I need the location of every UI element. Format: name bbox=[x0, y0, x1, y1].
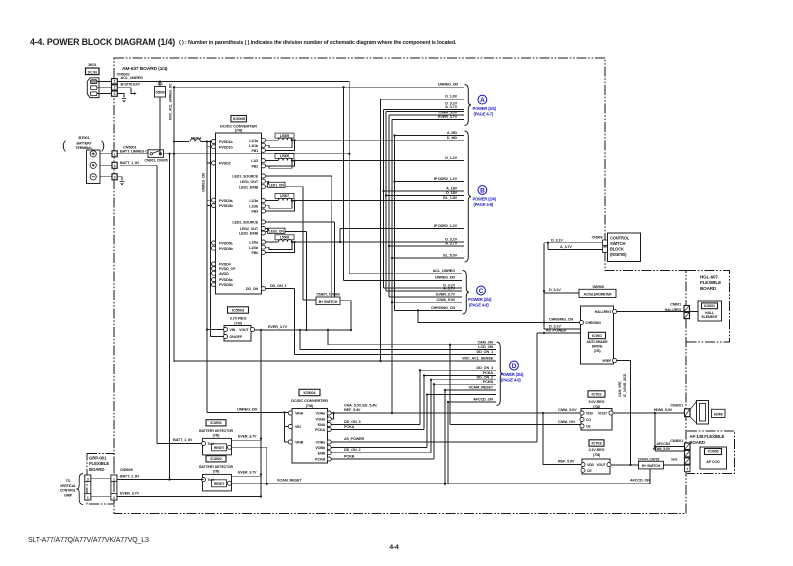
svg-text:EL_1.8V: EL_1.8V bbox=[443, 196, 457, 200]
wire group B A_18V bbox=[384, 190, 465, 192]
vertical bus line v5 bbox=[391, 120, 393, 413]
vertical bus line v6 bbox=[394, 136, 396, 311]
svg-text:BT001: BT001 bbox=[79, 135, 91, 140]
wire group D PCKB bbox=[434, 383, 496, 385]
svg-text:PVDD2: PVDD2 bbox=[219, 162, 231, 166]
svg-text:VOHa: VOHa bbox=[316, 412, 327, 416]
svg-text:L1/1b: L1/1b bbox=[249, 144, 259, 148]
svg-text:IC3902: IC3902 bbox=[210, 457, 221, 461]
wire group A EVER_3.7V bbox=[392, 119, 464, 121]
diode block D5008 bbox=[155, 87, 166, 98]
svg-text:HALLREG: HALLREG bbox=[665, 308, 682, 312]
svg-text:D5008: D5008 bbox=[156, 90, 165, 94]
wire grip internal 1 bbox=[91, 478, 111, 480]
wire B+ switch in bbox=[303, 299, 316, 301]
svg-text:CN001, CN005: CN001, CN005 bbox=[144, 159, 167, 163]
svg-text:LED1_ON: LED1_ON bbox=[269, 183, 285, 187]
svg-text:BOARD: BOARD bbox=[89, 467, 104, 472]
wire group D AFCCD_ON bbox=[448, 401, 496, 403]
board outline AF-138 bbox=[687, 431, 735, 474]
svg-text:B+ SWITCH: B+ SWITCH bbox=[642, 464, 661, 468]
svg-text:A_3.7V: A_3.7V bbox=[560, 245, 572, 249]
wire BATT_1_IN bbox=[120, 164, 157, 166]
svg-text:A_MD: A_MD bbox=[447, 131, 458, 135]
IC IC5008 body bbox=[216, 133, 262, 294]
svg-text:GRP-001: GRP-001 bbox=[89, 456, 107, 461]
svg-text:AVDD: AVDD bbox=[219, 272, 229, 276]
svg-text:IP DDR2_1.2V: IP DDR2_1.2V bbox=[434, 177, 458, 181]
svg-text:D-4: D-4 bbox=[158, 82, 163, 86]
wire into D5008 bbox=[159, 82, 161, 87]
svg-text:CN909: CN909 bbox=[592, 236, 603, 240]
svg-text:BATTERY DETECTOR: BATTERY DETECTOR bbox=[199, 429, 233, 433]
vertical bus line v2 bbox=[383, 110, 385, 289]
svg-text:AFCCD_ON: AFCCD_ON bbox=[630, 478, 650, 482]
svg-text:PVDD3b: PVDD3b bbox=[219, 204, 234, 208]
wire group D DD_ON_3 bbox=[420, 369, 496, 371]
svg-text:HDMI_5.0V: HDMI_5.0V bbox=[654, 408, 673, 412]
svg-text:VOHb: VOHb bbox=[315, 418, 326, 422]
svg-text:PVDD1b: PVDD1b bbox=[219, 145, 234, 149]
svg-text:VOBa: VOBa bbox=[316, 441, 327, 445]
wire ENB DD_ON_2 bbox=[331, 452, 431, 454]
wire riser DD_ON_2 bbox=[430, 380, 432, 453]
svg-text:LED1_OUT: LED1_OUT bbox=[240, 180, 259, 184]
wire D_3.1V to IC901 bbox=[544, 328, 580, 330]
svg-text:VDD: VDD bbox=[587, 463, 595, 467]
svg-text:L1/3a: L1/3a bbox=[249, 199, 259, 203]
wire JK01 pin2 to CN5002-2 bbox=[97, 87, 112, 89]
wire group B IP DDR2_1.2V bbox=[340, 228, 464, 230]
svg-text:A: A bbox=[480, 97, 485, 104]
svg-text:LCD_ON: LCD_ON bbox=[478, 345, 493, 349]
wire to control switch pin1 bbox=[544, 242, 603, 244]
wire UNREG_DD to VINA bbox=[207, 411, 288, 413]
switch B+ SWITCH top bbox=[316, 297, 340, 305]
svg-text:IC901: IC901 bbox=[592, 333, 603, 338]
wire BT001- to CN5001-3 bbox=[100, 176, 112, 178]
svg-text:PVDD4: PVDD4 bbox=[219, 263, 232, 267]
svg-text:DD_ON_1: DD_ON_1 bbox=[477, 350, 494, 354]
wire LED2_OUT bbox=[265, 229, 268, 232]
svg-text:ACCELEROMETER: ACCELEROMETER bbox=[583, 293, 612, 297]
ground at CN5002 bbox=[122, 99, 127, 102]
svg-text:HDMI: HDMI bbox=[714, 412, 723, 416]
connector grip right bbox=[111, 475, 117, 500]
connector CN909 bbox=[603, 240, 608, 245]
svg-text:ENA: ENA bbox=[318, 423, 326, 427]
svg-text:L1/3b: L1/3b bbox=[249, 204, 259, 208]
connector CN5002 bbox=[112, 79, 118, 84]
svg-text:HALL: HALL bbox=[705, 311, 715, 315]
svg-text:ENB: ENB bbox=[318, 451, 326, 455]
junction B+ at ACL vertical bbox=[348, 153, 350, 155]
wire group B A_MD bbox=[395, 135, 465, 137]
connector CN801 bbox=[684, 306, 690, 312]
wire EVER_3.7V rail bbox=[254, 329, 351, 331]
svg-text:1: 1 bbox=[114, 152, 116, 156]
svg-text:CHRGING_CN: CHRGING_CN bbox=[431, 306, 455, 310]
svg-text:VIN: VIN bbox=[230, 328, 236, 332]
svg-text:(PAGE 4-8): (PAGE 4-8) bbox=[474, 202, 494, 207]
wire B+ switch to CN3001 Iset bbox=[664, 464, 685, 466]
svg-text:(7/8): (7/8) bbox=[593, 453, 601, 457]
wire EVER_3.7V grip bbox=[117, 496, 261, 498]
wire group C CHRGING_CN bbox=[395, 309, 463, 311]
board outline AM-637 bbox=[114, 58, 686, 514]
svg-text:UNREG_DD: UNREG_DD bbox=[202, 172, 206, 192]
wire JK01 pin1 to CN5002-1 bbox=[97, 81, 112, 83]
svg-text:POWER (2/4): POWER (2/4) bbox=[473, 106, 497, 111]
wire group A A_3.7V bbox=[386, 111, 464, 113]
svg-text:AF-138 FLEXIBLE: AF-138 FLEXIBLE bbox=[690, 434, 725, 439]
wire rail to IC5003 VIN and VINA bbox=[206, 206, 208, 413]
svg-text:DD_ON_2: DD_ON_2 bbox=[344, 448, 361, 452]
svg-text:CO: CO bbox=[586, 418, 591, 422]
svg-text:D_3.1V: D_3.1V bbox=[549, 288, 561, 292]
wire rail to IC5003 ONOFF bbox=[210, 285, 212, 337]
svg-text:A_3.7V: A_3.7V bbox=[445, 105, 457, 109]
svg-text:A_3.7V: A_3.7V bbox=[443, 287, 455, 291]
brace grip bbox=[76, 474, 83, 505]
svg-text:UNREG_DD: UNREG_DD bbox=[438, 82, 459, 86]
svg-text:(PAGE 4-7): (PAGE 4-7) bbox=[474, 111, 494, 116]
svg-text:FB6: FB6 bbox=[251, 251, 258, 255]
svg-text:IC_3.0V/B_I2CD: IC_3.0V/B_I2CD bbox=[623, 373, 627, 397]
IC IC5003 label bbox=[228, 307, 249, 313]
junction UNREG_DD top bbox=[173, 86, 175, 88]
svg-text:POWER (2/4): POWER (2/4) bbox=[473, 197, 497, 202]
wire LED2_E/NB bbox=[285, 231, 307, 233]
svg-text:FB1: FB1 bbox=[251, 149, 258, 153]
svg-text:2: 2 bbox=[113, 496, 115, 500]
net label LED1_ON boxed bbox=[268, 182, 286, 187]
svg-text:PVDD5b: PVDD5b bbox=[219, 247, 234, 251]
svg-text:L1/1a: L1/1a bbox=[249, 139, 259, 143]
svg-text:SWITCH: SWITCH bbox=[610, 241, 625, 246]
wire riser aux bbox=[426, 395, 428, 448]
vertical rail control switch bbox=[543, 243, 545, 329]
node B page link bbox=[478, 186, 487, 195]
svg-text:BATTERY: BATTERY bbox=[76, 141, 92, 145]
wire ENA DD_ON_3 bbox=[331, 424, 420, 426]
wire XCAM_RESET bottom run bbox=[232, 483, 651, 485]
wire group D PCKA bbox=[424, 375, 496, 377]
svg-text:CN807, CN806: CN807, CN806 bbox=[316, 293, 339, 297]
svg-text:B-ST/D EXT: B-ST/D EXT bbox=[121, 82, 141, 86]
wire CN801 to hall element bbox=[690, 311, 699, 313]
svg-text:DD_ON_3: DD_ON_3 bbox=[477, 366, 494, 370]
svg-text:C/WA_5.0V: C/WA_5.0V bbox=[437, 298, 456, 302]
connector HDMI plug symbol bbox=[690, 402, 697, 410]
IC5008 right pins bbox=[261, 138, 265, 142]
wire IC703 out to B+ switch bbox=[611, 464, 639, 466]
wire CN5001-3 to ground bbox=[117, 177, 122, 181]
connector CN2001 bbox=[685, 409, 691, 417]
svg-text:BOARD: BOARD bbox=[690, 440, 705, 445]
wire UNREG_DD to group A bbox=[174, 86, 464, 88]
wire B-ST/D EXT stub bbox=[117, 88, 135, 94]
svg-text:L5007: L5007 bbox=[280, 194, 289, 198]
svg-text:BATT_1_IN: BATT_1_IN bbox=[173, 438, 192, 442]
svg-text:(RS8700): (RS8700) bbox=[610, 252, 627, 257]
svg-text:PCKB: PCKB bbox=[315, 458, 325, 462]
brace group D bbox=[497, 342, 504, 406]
wire group C A_3.7V bbox=[386, 290, 462, 292]
svg-text:C/WA_5.0V: C/WA_5.0V bbox=[558, 408, 577, 412]
svg-text:B: B bbox=[480, 188, 485, 195]
svg-text:): ) bbox=[101, 138, 105, 152]
svg-text:AM-637 BOARD (1/4): AM-637 BOARD (1/4) bbox=[122, 66, 168, 72]
svg-text:LED2_SOURCE: LED2_SOURCE bbox=[232, 221, 258, 225]
svg-text:VOUT: VOUT bbox=[596, 463, 606, 467]
svg-text:UNREG_DD: UNREG_DD bbox=[237, 408, 258, 412]
wire group D aux bbox=[427, 394, 496, 396]
svg-text:SW908: SW908 bbox=[592, 285, 603, 289]
svg-text:BATT_UNREG C: BATT_UNREG C bbox=[120, 150, 148, 154]
wire LED1_E/NB bbox=[285, 186, 303, 188]
svg-text:XCAM_RESET: XCAM_RESET bbox=[469, 386, 494, 390]
svg-text:ACL_UNREG: ACL_UNREG bbox=[433, 269, 455, 273]
wire CHA_5.0V output bbox=[335, 412, 581, 414]
svg-text:CN3001: CN3001 bbox=[670, 439, 683, 443]
svg-text:D_18V: D_18V bbox=[446, 191, 457, 195]
svg-text:DC IN: DC IN bbox=[88, 70, 98, 74]
svg-text:IC702: IC702 bbox=[592, 391, 603, 396]
wire HALLREG to CN801 bbox=[616, 311, 684, 313]
svg-text:DD_ON_3: DD_ON_3 bbox=[344, 420, 361, 424]
wire FB004 feed to PVDD pins bbox=[206, 142, 208, 206]
svg-text:L5005: L5005 bbox=[280, 134, 289, 138]
svg-text:JK01: JK01 bbox=[88, 62, 98, 67]
svg-text:HGL-607: HGL-607 bbox=[700, 275, 718, 280]
brace group C bbox=[463, 271, 470, 315]
vertical rail B+ to grip bbox=[169, 154, 171, 480]
wire group D DD_ON_1 bbox=[295, 354, 497, 356]
svg-text:EVER_3.7V: EVER_3.7V bbox=[436, 293, 456, 297]
ferrite bead FB004 bbox=[174, 141, 189, 143]
svg-text:EVER_3.7V: EVER_3.7V bbox=[268, 325, 288, 329]
svg-text:IC2001: IC2001 bbox=[704, 304, 715, 308]
IC IC5003 body bbox=[224, 326, 251, 342]
node C page link bbox=[477, 286, 486, 295]
svg-text:C/WA_5.0V: C/WA_5.0V bbox=[439, 111, 458, 115]
svg-text:CONTROL: CONTROL bbox=[60, 489, 77, 493]
wire to control switch pin2 bbox=[548, 249, 603, 251]
wire group D VDC_ACL_SENSE bbox=[174, 360, 496, 362]
connector CN5001 bbox=[112, 151, 117, 157]
junction UNREG_DD branch bbox=[342, 86, 344, 88]
svg-text:CHRGING_CN: CHRGING_CN bbox=[549, 318, 573, 322]
switch B+ SWITCH bottom bbox=[639, 461, 664, 469]
svg-text:(7/8): (7/8) bbox=[213, 434, 219, 438]
svg-text:LED2_OUT: LED2_OUT bbox=[240, 227, 259, 231]
wire group B IP DDR2 second riser bbox=[339, 229, 341, 243]
svg-text:L1/2: L1/2 bbox=[251, 159, 258, 163]
svg-text:RESET: RESET bbox=[214, 482, 224, 486]
svg-text:3: 3 bbox=[114, 175, 116, 179]
svg-text:ELEMENT: ELEMENT bbox=[701, 315, 718, 319]
svg-text:VERTICAL: VERTICAL bbox=[60, 484, 77, 488]
svg-text:GRIP: GRIP bbox=[64, 493, 73, 497]
svg-text:FLEXIBLE: FLEXIBLE bbox=[700, 280, 721, 285]
wire REF_5.0V drop bbox=[543, 413, 581, 465]
wire PCKA out bbox=[331, 429, 424, 431]
IC IC702 label bbox=[588, 391, 605, 397]
svg-text:L5009: L5009 bbox=[280, 236, 289, 240]
svg-text:ACL_UNREG: ACL_UNREG bbox=[121, 76, 143, 80]
block IC2001 hall element bbox=[698, 301, 722, 321]
svg-text:BLOCK: BLOCK bbox=[610, 247, 624, 252]
IC IC5004 body bbox=[292, 409, 328, 464]
svg-text:EVER_3.7V: EVER_3.7V bbox=[238, 435, 257, 439]
svg-text:XCAM_RESET: XCAM_RESET bbox=[277, 479, 302, 483]
svg-text:A_18V: A_18V bbox=[446, 187, 457, 191]
wire PCKB out bbox=[331, 458, 434, 460]
svg-text:CN2001: CN2001 bbox=[670, 403, 683, 407]
svg-text:NVC_ACL_UNREG_DC: NVC_ACL_UNREG_DC bbox=[169, 83, 173, 120]
svg-text:EVER_3.7V: EVER_3.7V bbox=[120, 492, 140, 496]
wire group B A_3.7V bbox=[389, 245, 464, 247]
svg-text:LED1_SOURCE: LED1_SOURCE bbox=[232, 175, 258, 179]
junction UNREG_DD B+ rail bbox=[173, 153, 175, 155]
svg-text:D_MD: D_MD bbox=[447, 136, 458, 140]
vertical EVER_3.7V distribution bbox=[260, 330, 262, 497]
svg-text:(PAGE 4-8): (PAGE 4-8) bbox=[469, 302, 489, 307]
svg-text:DD_ON_1: DD_ON_1 bbox=[270, 284, 287, 288]
svg-text:4-4: 4-4 bbox=[389, 544, 399, 551]
svg-text:3: 3 bbox=[87, 477, 89, 481]
wire AFCCD3 into CN3001 bbox=[654, 445, 656, 447]
svg-text:BOARD: BOARD bbox=[700, 286, 717, 291]
wire ACL_UNREG horizontal bbox=[117, 81, 349, 83]
svg-text:PCKB: PCKB bbox=[483, 380, 494, 384]
wire VOBb aux bbox=[331, 446, 427, 448]
svg-text:C/WA_ON: C/WA_ON bbox=[558, 420, 575, 424]
wire group B D_18V bbox=[386, 195, 464, 197]
wire riser PCKA bbox=[423, 376, 425, 430]
svg-text:VOBb: VOBb bbox=[315, 446, 326, 450]
svg-text:LED2_E/NB: LED2_E/NB bbox=[239, 232, 258, 236]
wire A5_POWER riser bbox=[536, 333, 538, 442]
svg-text:4-4. POWER BLOCK DIAGRAM (1: 4-4. POWER BLOCK DIAGRAM (1/4) bbox=[30, 37, 175, 47]
wire BT001+ to CN5001-1 bbox=[100, 153, 112, 155]
wire group A C/WA_5.0V bbox=[389, 114, 464, 116]
vertical bus line v4 bbox=[388, 115, 390, 297]
svg-text:CN5009: CN5009 bbox=[120, 468, 133, 472]
svg-text:POWER (2/4): POWER (2/4) bbox=[468, 297, 492, 302]
wire CN5001-1 to switch bbox=[117, 153, 148, 155]
svg-text:ON/OFF: ON/OFF bbox=[230, 335, 244, 339]
wire LED2_SOURCE bbox=[265, 221, 334, 223]
vertical ACL_UNREG to group C bbox=[348, 82, 350, 274]
svg-text:TERMINAL: TERMINAL bbox=[76, 146, 94, 150]
svg-text:(PAGE 4-9): (PAGE 4-9) bbox=[501, 377, 521, 382]
wire C/WA_ON to CE bbox=[450, 424, 581, 426]
svg-text:DD_ON_2: DD_ON_2 bbox=[477, 375, 494, 379]
svg-text:CONTROL: CONTROL bbox=[610, 236, 630, 241]
vertical bus line v3 bbox=[385, 112, 387, 292]
svg-text:VIN: VIN bbox=[295, 425, 301, 429]
svg-text:FLEXIBLE: FLEXIBLE bbox=[89, 461, 109, 466]
vertical bus line v1 bbox=[380, 99, 382, 361]
IC IC3901 battery detector bbox=[206, 420, 226, 426]
IC IC702 body bbox=[581, 409, 612, 431]
wire group D LCD_ON bbox=[300, 348, 496, 350]
wire A5_POWER to IC901 bbox=[537, 332, 581, 334]
svg-text:(7/8): (7/8) bbox=[594, 349, 602, 353]
wire B+ switched rail bbox=[164, 153, 350, 155]
svg-text:IC5004: IC5004 bbox=[304, 390, 317, 395]
svg-text:D_3.1V: D_3.1V bbox=[551, 238, 563, 242]
wire group D CAM_ON bbox=[328, 344, 496, 346]
brace group A bbox=[465, 85, 472, 126]
wire group B IP DDR2_1.2V bbox=[395, 181, 465, 183]
svg-text:PVDD5a: PVDD5a bbox=[219, 242, 234, 246]
svg-text:L5006: L5006 bbox=[280, 154, 289, 158]
svg-text:CAM_VRF,: CAM_VRF, bbox=[618, 381, 622, 397]
wire riser DD_ON_3 bbox=[419, 370, 421, 424]
wire VOBa A5_POWER bbox=[331, 441, 537, 443]
wire group D DD_ON_2 bbox=[431, 379, 496, 381]
svg-text:SLT-A77/A77Q/A77V/A77VK/A77VQ_: SLT-A77/A77Q/A77V/A77VK/A77VQ_L3 bbox=[28, 537, 149, 544]
svg-text:DRIVE: DRIVE bbox=[592, 345, 603, 349]
svg-text:PCKA: PCKA bbox=[344, 425, 355, 429]
net label LED2_ON boxed bbox=[268, 228, 286, 233]
svg-text:VINB: VINB bbox=[295, 441, 304, 445]
wire BATT_2_IN bbox=[117, 479, 204, 481]
svg-text:VDD: VDD bbox=[586, 412, 594, 416]
svg-text:VDC_ACL_SENSE: VDC_ACL_SENSE bbox=[462, 357, 494, 361]
svg-text:(7/8): (7/8) bbox=[235, 127, 243, 132]
svg-text:Iset: Iset bbox=[671, 457, 678, 461]
svg-text:1: 1 bbox=[113, 477, 115, 481]
svg-text:REF_5.0V: REF_5.0V bbox=[558, 459, 575, 463]
wire D5008 to B+ rail bbox=[159, 97, 161, 154]
IC IC901 body bbox=[581, 306, 614, 364]
IC IC703 label bbox=[589, 440, 604, 446]
svg-text:PVDD_CP: PVDD_CP bbox=[219, 267, 236, 271]
wire riser AFCCD_ON bbox=[447, 402, 449, 484]
wire BATT_1_IN to IC3901 bbox=[157, 443, 203, 445]
wire grip internal 2 bbox=[91, 495, 111, 497]
svg-text:PCKA: PCKA bbox=[315, 428, 325, 432]
svg-text:PVDD6b: PVDD6b bbox=[219, 283, 234, 287]
junction ACL at D5008 bbox=[159, 80, 161, 82]
block SW908 accelerometer bbox=[579, 289, 616, 297]
svg-text:IC5003: IC5003 bbox=[232, 307, 245, 312]
svg-text:CHRGING: CHRGING bbox=[585, 321, 601, 325]
svg-text:D_1.2V: D_1.2V bbox=[445, 156, 457, 160]
svg-text:(: ( bbox=[62, 138, 66, 152]
wire CN5002-3 to ground bbox=[117, 94, 124, 98]
svg-text:IC5008: IC5008 bbox=[233, 116, 246, 121]
wire riser XCAM_RESET bbox=[444, 390, 446, 484]
svg-text:1: 1 bbox=[87, 496, 89, 500]
svg-text:AF CCD: AF CCD bbox=[706, 460, 720, 464]
svg-text:A5_POWER: A5_POWER bbox=[344, 437, 365, 441]
svg-text:LED2_ON: LED2_ON bbox=[269, 229, 285, 233]
board outline HGL-607 bbox=[686, 271, 730, 343]
svg-text:POWER (3/4): POWER (3/4) bbox=[500, 372, 524, 377]
svg-text:IC3901: IC3901 bbox=[210, 421, 221, 425]
svg-text:D: D bbox=[512, 363, 517, 370]
svg-text:FB3: FB3 bbox=[251, 210, 258, 214]
vertical rail BATT_1_IN bbox=[156, 165, 158, 443]
svg-text:C: C bbox=[479, 288, 484, 295]
svg-text:B+ SWITCH: B+ SWITCH bbox=[319, 300, 338, 304]
svg-text:AFCCD3: AFCCD3 bbox=[656, 442, 670, 446]
